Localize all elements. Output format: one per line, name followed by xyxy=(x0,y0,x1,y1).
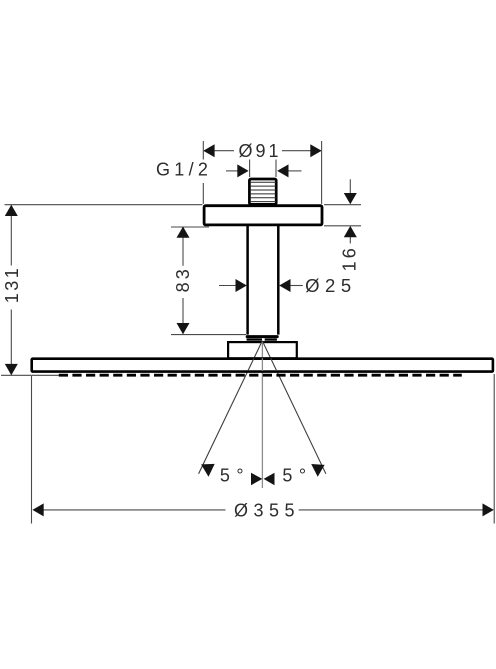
svg-text:Ø91: Ø91 xyxy=(238,141,281,161)
flange plate xyxy=(204,206,322,225)
O355 extension line left xyxy=(31,376,33,524)
thread nipple G1/2 xyxy=(249,179,276,204)
angle arrow left (points down at left spray line) xyxy=(201,464,215,477)
spray left line xyxy=(199,341,263,474)
dimension 83 line xyxy=(182,227,184,265)
dimension 83 bottom extension xyxy=(171,334,246,336)
pipe left wall xyxy=(246,226,249,335)
arrow O91 right xyxy=(310,144,321,157)
dimension 131 line xyxy=(10,205,12,265)
svg-text:Ø355: Ø355 xyxy=(234,501,300,521)
ceiling line right (16-dim top extension) xyxy=(324,204,361,206)
dimension O25 arrow right xyxy=(290,285,303,287)
shower plate xyxy=(32,359,493,372)
svg-text:G1/2: G1/2 xyxy=(156,160,212,180)
dimension 83 top extension xyxy=(171,226,209,228)
pipe end nut band lower right xyxy=(265,338,277,340)
16-dim bottom extension xyxy=(324,225,361,227)
G1/2 extension line right xyxy=(275,160,277,178)
O91 extension line right xyxy=(321,141,323,204)
nozzle dashes xyxy=(59,374,462,377)
pipe right wall xyxy=(277,226,280,335)
pipe end nut band lower left xyxy=(247,338,262,340)
arrow O355 right xyxy=(483,503,494,516)
dimension O91 line xyxy=(204,150,234,152)
angle bowtie left xyxy=(251,473,262,486)
dimension 16 upper arrow xyxy=(349,179,351,196)
bottom reference line xyxy=(1,374,61,376)
escutcheon box xyxy=(228,342,297,358)
thread hatch lines xyxy=(251,182,276,201)
svg-text:Ø25: Ø25 xyxy=(305,275,356,296)
svg-text:5°: 5° xyxy=(282,466,312,486)
svg-text:5°: 5° xyxy=(220,466,250,486)
dimension O355 line xyxy=(34,509,226,511)
ceiling line left xyxy=(5,204,203,206)
arrow 131 up xyxy=(5,205,18,216)
G1/2 arrow left-pointing xyxy=(289,170,302,172)
dimension O25 arrow left xyxy=(219,285,237,287)
O355 extension line right xyxy=(493,374,495,524)
svg-text:83: 83 xyxy=(173,266,193,292)
svg-text:131: 131 xyxy=(2,266,22,304)
arrow O355 left xyxy=(32,503,43,516)
dimension 16 lower arrow xyxy=(349,234,351,243)
pipe end nut band xyxy=(246,335,279,338)
spray right line xyxy=(262,341,326,474)
arrow 83 down xyxy=(177,323,190,334)
O91 extension line left xyxy=(202,141,204,160)
angle bowtie right xyxy=(264,473,275,486)
G1/2 extension line left xyxy=(249,160,251,178)
spray center line xyxy=(261,341,263,488)
arrow 131 down xyxy=(5,364,18,375)
spray lines over plate (redraw inside plate) xyxy=(248,358,277,371)
arrow 83 up xyxy=(177,227,190,238)
svg-text:16: 16 xyxy=(340,245,360,271)
G1/2 arrow right-pointing xyxy=(226,170,239,172)
angle arrow right (points down at right spray line) xyxy=(311,464,324,477)
arrow O91 left xyxy=(203,144,214,157)
